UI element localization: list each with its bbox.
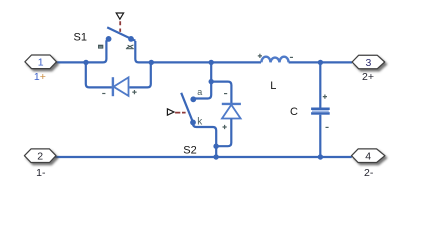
node: S2 anode dot — [190, 96, 196, 102]
wire: top rail under S1 left leg up to S1 left node — [86, 40, 106, 62]
S1 control port triangle — [116, 13, 123, 19]
node: junction dot D2/k wire — [213, 144, 218, 149]
label: C minus — [326, 126, 329, 128]
svg-text:2+: 2+ — [362, 71, 374, 83]
wire: S2 cathode down and right to bottom rail — [193, 122, 216, 157]
wire: top rail from S1 right junction to inductor — [151, 61, 261, 63]
node: junction dot on top rail at S2 branch — [209, 60, 214, 65]
port 1 hexagon — [25, 55, 57, 69]
wire: bottom rail from port 2 to port 4 — [55, 156, 352, 158]
svg-text:3: 3 — [365, 57, 371, 69]
diode D2 (freewheeling) — [222, 104, 241, 119]
S2 control port triangle — [167, 109, 174, 115]
svg-text:2-: 2- — [364, 167, 374, 179]
svg-text:C: C — [290, 106, 298, 118]
node: junction dot rail/D1 left — [83, 60, 88, 65]
wire: D1 loop left drop from junction — [86, 62, 112, 87]
svg-text:1+: 1+ — [34, 71, 46, 83]
svg-text:a: a — [197, 87, 202, 97]
port 4 hexagon — [352, 149, 385, 163]
label: D1 plus — [132, 90, 136, 94]
switch S2 blade — [181, 93, 193, 122]
wire: top rail from port1 to S1 left junction — [56, 61, 86, 63]
wire: capacitor bottom lead — [319, 115, 321, 157]
diode D1 (antiparallel with S1) — [113, 77, 129, 96]
node: S1 right contact dot — [128, 36, 134, 42]
wire: capacitor top lead — [319, 62, 321, 107]
svg-text:1: 1 — [38, 57, 44, 69]
label: C plus — [323, 95, 327, 99]
label: D1 minus — [102, 93, 105, 95]
switch S1 blade — [107, 27, 135, 40]
inductor L coil — [261, 57, 288, 63]
S1 right terminal glyph — [126, 45, 134, 49]
svg-text:k: k — [197, 116, 203, 127]
port 2 hexagon — [24, 149, 56, 163]
label: D2 plus — [223, 125, 227, 129]
label: D2 minus — [224, 93, 227, 95]
label: L minus — [290, 56, 293, 58]
svg-text:S2: S2 — [183, 145, 196, 157]
svg-text:L: L — [270, 80, 276, 92]
wire: branch to S2 anode — [195, 82, 212, 99]
svg-text:4: 4 — [365, 151, 371, 163]
wire: D1 loop right segment up to rail — [129, 62, 150, 87]
port 3 hexagon — [352, 55, 385, 69]
node: junction dot top rail C — [318, 60, 323, 65]
wire: branch to D2 top — [211, 82, 231, 104]
wire: D2 bottom lead to k-branch junction — [216, 119, 231, 147]
node: S1 left contact dot — [106, 36, 112, 42]
S1 left terminal glyph — [98, 45, 103, 49]
S2 control dashed line — [175, 112, 186, 114]
wire: top rail from inductor to port 3 — [289, 61, 353, 63]
node: junction dot bottom rail S2 — [213, 154, 218, 159]
svg-text:1-: 1- — [36, 167, 46, 179]
label: L plus — [258, 54, 262, 58]
capacitor C plates — [311, 108, 330, 115]
svg-text:S1: S1 — [74, 32, 87, 44]
wire: S2 branch from top rail down — [210, 62, 212, 81]
node: junction dot bottom rail C — [318, 154, 323, 159]
node: S2 cathode dot — [190, 120, 196, 126]
svg-text:2: 2 — [37, 151, 43, 163]
node: junction dot S2/D2 split — [209, 79, 214, 84]
S1 control dashed line — [119, 21, 121, 32]
node: junction dot rail/D1 right — [149, 60, 154, 65]
wire: S1 right leg down to rail, rail to right junction — [135, 41, 151, 62]
